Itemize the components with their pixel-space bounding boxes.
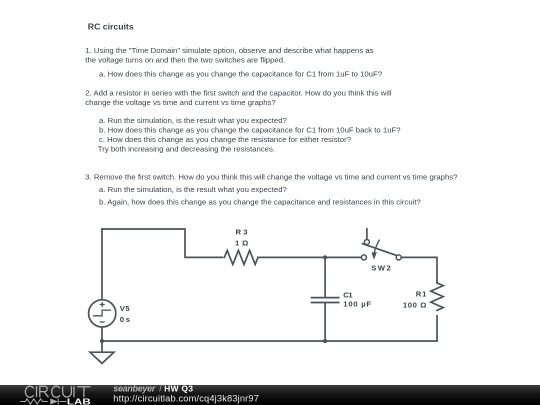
svg-text:SW2: SW2 bbox=[371, 264, 391, 273]
svg-text:LAB: LAB bbox=[67, 397, 91, 405]
svg-text:C1: C1 bbox=[343, 291, 353, 300]
svg-text:V5: V5 bbox=[120, 304, 131, 313]
svg-text:Try both increasing and decrea: Try both increasing and decreasing the r… bbox=[98, 145, 275, 154]
svg-text:1 Ω: 1 Ω bbox=[235, 238, 248, 247]
svg-text:2. Add a resistor in series wi: 2. Add a resistor in series with the fir… bbox=[85, 88, 392, 97]
svg-text:100 µF: 100 µF bbox=[343, 300, 371, 309]
svg-text:b. How does this change as you: b. How does this change as you change th… bbox=[99, 125, 401, 134]
svg-text:R1: R1 bbox=[416, 290, 427, 299]
svg-text:the voltage turns on and then: the voltage turns on and then the two sw… bbox=[85, 56, 285, 65]
svg-text:c. How does this change as you: c. How does this change as you change th… bbox=[99, 135, 352, 144]
svg-text:a. Run the simulation, is the: a. Run the simulation, is the result wha… bbox=[99, 116, 288, 125]
svg-text:seanbeyer: seanbeyer bbox=[113, 383, 155, 393]
svg-text:HW Q3: HW Q3 bbox=[164, 383, 193, 393]
svg-text:3. Remove the first switch. Ho: 3. Remove the first switch. How do you t… bbox=[85, 173, 458, 182]
svg-text:0 s: 0 s bbox=[120, 315, 130, 324]
svg-text:RC circuits: RC circuits bbox=[88, 22, 134, 32]
svg-text:http://circuitlab.com/cq4j3k83: http://circuitlab.com/cq4j3k83jnr97 bbox=[113, 394, 259, 404]
svg-text:a. Run the simulation, is the: a. Run the simulation, is the result wha… bbox=[99, 185, 288, 194]
svg-text:change the voltage vs time and: change the voltage vs time and current v… bbox=[85, 98, 276, 107]
svg-text:100 Ω: 100 Ω bbox=[403, 300, 427, 309]
svg-text:1. Using the "Time Domain" sim: 1. Using the "Time Domain" simulate opti… bbox=[85, 46, 373, 55]
svg-text:a. How does this change as you: a. How does this change as you change th… bbox=[99, 70, 383, 79]
svg-text:b. Again, how does this change: b. Again, how does this change as you ch… bbox=[99, 197, 422, 206]
